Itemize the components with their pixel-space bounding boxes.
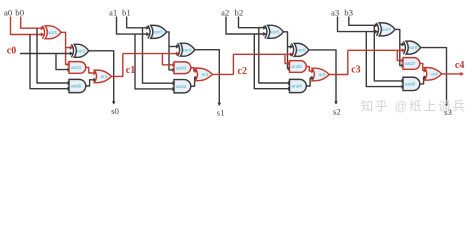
svg-text:b0: b0: [15, 8, 24, 18]
svg-text:s2: s2: [333, 107, 341, 117]
svg-text:and7: and7: [405, 61, 416, 66]
svg-text:and0: and0: [71, 84, 82, 89]
svg-text:xor1: xor1: [48, 30, 58, 35]
svg-text:c4: c4: [455, 60, 464, 71]
svg-text:a1: a1: [109, 8, 117, 18]
svg-text:b1: b1: [122, 8, 131, 18]
svg-text:c2: c2: [238, 66, 247, 77]
svg-text:and4: and4: [291, 84, 302, 89]
svg-text:xor2: xor2: [76, 48, 86, 53]
svg-text:and5: and5: [291, 64, 302, 69]
svg-text:and1: and1: [71, 65, 82, 70]
svg-text:or4: or4: [431, 72, 438, 77]
svg-text:知乎 @纸上谈兵: 知乎 @纸上谈兵: [361, 100, 466, 114]
svg-text:a3: a3: [331, 8, 340, 18]
svg-text:xor8: xor8: [408, 45, 418, 50]
svg-text:s1: s1: [217, 108, 225, 118]
svg-text:b2: b2: [235, 8, 244, 18]
svg-text:xor5: xor5: [270, 29, 280, 34]
svg-text:or3: or3: [318, 72, 325, 77]
svg-text:or1: or1: [101, 74, 108, 79]
svg-text:xor7: xor7: [382, 27, 392, 32]
svg-text:c1: c1: [126, 65, 135, 76]
svg-text:xor3: xor3: [153, 30, 163, 35]
svg-text:or2: or2: [202, 72, 209, 77]
svg-text:and3: and3: [176, 65, 187, 70]
svg-text:b3: b3: [344, 8, 353, 18]
svg-text:a0: a0: [4, 8, 13, 18]
svg-text:and2: and2: [176, 84, 187, 89]
svg-text:a2: a2: [221, 8, 229, 18]
svg-text:xor6: xor6: [296, 48, 306, 53]
svg-text:and6: and6: [405, 82, 416, 87]
svg-text:s0: s0: [111, 106, 119, 116]
svg-text:c3: c3: [351, 65, 360, 76]
svg-text:c0: c0: [7, 45, 16, 56]
svg-text:xor4: xor4: [182, 47, 192, 52]
